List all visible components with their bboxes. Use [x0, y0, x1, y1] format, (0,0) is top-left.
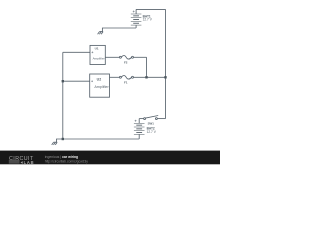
svg-text:Amplifier: Amplifier — [93, 56, 105, 60]
wire BAT2 bottom stub — [138, 134, 140, 139]
switch SW1 — [144, 116, 159, 120]
label BAT2 value — [147, 126, 157, 133]
wire right rail vertical — [165, 9, 167, 118]
node junction rail — [164, 76, 166, 78]
op-amp U1 (amplifier box) — [90, 45, 105, 64]
wire top horizontal to right rail — [136, 8, 165, 10]
wire left rail vertical — [62, 52, 64, 139]
svg-text:F2: F2 — [124, 61, 128, 65]
wire ground G2 stub — [57, 139, 63, 142]
wire U1 output to fuse F2 — [105, 56, 119, 58]
CircuitLab logo — [9, 156, 35, 165]
wire down into BAT2 top — [138, 119, 140, 124]
wire U2 output to fuse F1 — [110, 76, 120, 78]
wire BAT1 bottom stub — [135, 25, 137, 28]
wire BAT1 minus to ground G1 — [102, 28, 136, 32]
svg-text:Amplifier: Amplifier — [94, 85, 109, 89]
footer watermark bar — [0, 151, 220, 165]
fuse F1 — [119, 76, 133, 80]
wire corner down to F1 node — [146, 57, 148, 77]
op-amp U2 (amplifier box) — [90, 74, 110, 97]
svg-text:http://circuitlab.com/c/gcw23y: http://circuitlab.com/c/gcw23y — [45, 159, 88, 163]
svg-text:U1: U1 — [95, 47, 99, 51]
ground G1 (chassis, BAT1 minus) — [98, 32, 104, 35]
wire F1 to right rail — [134, 76, 166, 78]
node junction F1/F2 — [145, 76, 147, 78]
svg-text:12.7 V: 12.7 V — [143, 17, 153, 21]
wire rail to switch right terminal — [158, 118, 166, 120]
ground G2 (chassis, bottom left) — [52, 142, 58, 145]
svg-text:F1: F1 — [124, 80, 128, 84]
fuse F2 — [119, 56, 133, 60]
svg-text:ingenious | car wiring: ingenious | car wiring — [45, 155, 78, 159]
svg-text:U2: U2 — [97, 78, 102, 82]
wire BAT1 plus stub up — [135, 9, 137, 14]
label BAT1 value — [143, 15, 153, 22]
wire U2 input — [63, 80, 90, 82]
wire bottom horizontal to left rail — [63, 138, 139, 140]
svg-text:LAB: LAB — [24, 160, 35, 165]
battery BAT1 — [131, 11, 142, 26]
wire U1 input — [63, 51, 90, 53]
footer text — [45, 155, 78, 159]
wire F2 to corner — [134, 56, 147, 58]
wire switch left terminal to corner — [139, 118, 143, 120]
node junction bottom left corner — [62, 138, 64, 140]
svg-text:SW1: SW1 — [148, 121, 155, 125]
svg-text:12.7 V: 12.7 V — [147, 130, 157, 134]
node junction U2 input tap — [62, 80, 64, 82]
battery BAT2 — [134, 120, 145, 135]
